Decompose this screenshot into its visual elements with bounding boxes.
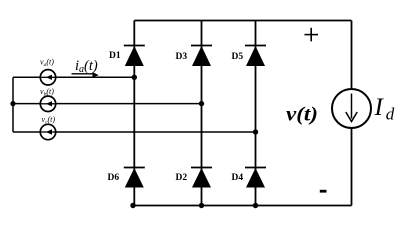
svg-text:D2: D2 xyxy=(176,173,188,183)
wire leg 1 xyxy=(133,21,135,206)
svg-text:D1: D1 xyxy=(109,51,121,61)
node A junction xyxy=(132,75,137,80)
node B junction xyxy=(199,101,204,106)
svg-text:vb(t): vb(t) xyxy=(40,87,54,98)
node bottom rail junction 1 xyxy=(130,203,135,208)
wire phase a xyxy=(13,76,134,78)
node neutral junction xyxy=(10,101,15,106)
svg-text:vc(t): vc(t) xyxy=(42,115,56,126)
wire phase c xyxy=(13,131,256,133)
node bottom rail junction 3 xyxy=(253,203,258,208)
wire bottom rail xyxy=(133,205,352,207)
diode D2 xyxy=(191,168,212,188)
diode D1 xyxy=(124,46,145,67)
svg-text:ia(t): ia(t) xyxy=(75,58,98,75)
svg-text:va(t): va(t) xyxy=(40,58,54,69)
diode D4 xyxy=(245,168,266,188)
diode D6 xyxy=(124,168,145,188)
source Va xyxy=(40,70,55,85)
svg-text:D6: D6 xyxy=(108,173,120,183)
node C junction xyxy=(253,129,258,134)
svg-text:d: d xyxy=(386,105,395,124)
source Vb xyxy=(40,96,55,111)
wire neutral bus xyxy=(12,77,14,132)
label plus xyxy=(305,28,319,42)
label minus xyxy=(320,190,327,193)
wire leg 2 xyxy=(201,21,203,206)
source Vc xyxy=(40,124,55,139)
diode D5 xyxy=(245,46,266,67)
diode D3 xyxy=(191,46,212,67)
wire right vertical xyxy=(351,21,353,206)
wire phase b xyxy=(13,103,202,105)
svg-text:D5: D5 xyxy=(232,52,244,62)
wire leg 3 xyxy=(255,21,257,206)
wire top rail xyxy=(134,20,351,22)
svg-text:v(t): v(t) xyxy=(286,104,318,126)
node bottom rail junction 2 xyxy=(199,203,204,208)
arrow ia xyxy=(72,72,99,77)
svg-text:D4: D4 xyxy=(232,173,244,183)
current source Id xyxy=(332,89,371,128)
svg-text:D3: D3 xyxy=(176,52,188,62)
